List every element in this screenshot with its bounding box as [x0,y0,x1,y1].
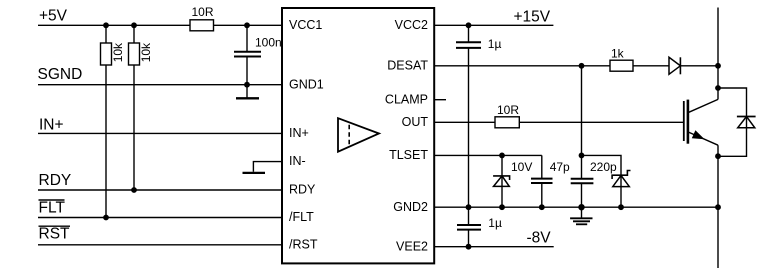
node junction dot FLT [103,215,109,221]
svg-text:IN+: IN+ [39,117,64,134]
svg-text:10V: 10V [511,160,532,174]
node junction dot emitter [715,153,721,159]
wire collector vertical [717,8,719,100]
svg-text:/RST: /RST [289,237,318,251]
svg-text:+15V: +15V [514,9,551,26]
diode D2 freewheel branch wires [718,88,747,156]
wire OUT line left [434,121,495,123]
op-amp U1 buffer triangle [338,118,379,152]
node junction dot VCC1 cap [244,22,250,28]
pin CLAMP stub [434,99,446,101]
node junction dot DESAT [579,63,585,69]
transistor Q1 IGBT gate bar [683,101,685,141]
node junction dot gnd2 c3 [539,204,545,210]
capacitor C1 100n [234,51,261,53]
svg-text:SGND: SGND [38,66,83,83]
svg-text:10k: 10k [111,42,125,62]
wire VEE2 rail [434,246,554,248]
svg-text:CLAMP: CLAMP [385,92,428,106]
wire IN- stub [253,162,282,172]
wire R1 top [105,25,107,43]
transistor Q1 collector diagonal [688,99,718,112]
node junction dot 220p [579,153,585,159]
wire emitter vertical [717,145,719,268]
svg-text:VCC1: VCC1 [289,18,322,32]
wire VCC2 rail [434,24,553,26]
wire to zener Z2 [582,155,622,207]
wire cap C1 bottom [246,57,248,85]
svg-text:IN+: IN+ [289,126,309,140]
resistor R2 10k [129,43,140,65]
resistor R4 1k [610,60,633,71]
capacitor C4 220p top wire [581,155,583,178]
wire C5 top [468,207,470,225]
capacitor C4 220p [571,178,594,180]
wire RST rail [38,244,282,246]
wire FLT overline [39,199,65,201]
wire TLSET line [434,154,542,156]
svg-text:OUT: OUT [402,115,429,129]
node junction dot gnd2 c4 ground [578,204,584,210]
wire R1 bottom to FLT [105,65,107,218]
zener Z1 10V through wire [501,155,503,207]
svg-text:/FLT: /FLT [289,210,314,224]
node junction dot RDY [131,187,137,193]
svg-text:FLT: FLT [39,200,66,217]
transistor Q1 emitter diagonal [688,132,718,145]
svg-text:10R: 10R [497,103,519,117]
capacitor C4 bottom wire [581,184,583,208]
resistor R 10R [190,20,214,31]
wire SGND rail [38,84,282,86]
wire C2 bottom down to GND2 [468,48,470,207]
ground IN- low bar [243,172,266,174]
wire DESAT line [434,65,610,67]
wire C2 top [468,25,470,41]
svg-text:10R: 10R [192,5,214,19]
wire DESAT divider vertical [581,66,583,156]
node junction dot collector top [715,85,721,91]
resistor R1 10k [101,43,112,65]
resistor R5 10R gate [495,117,519,128]
transistor Q1 emitter arrow [692,130,705,139]
node junction dot gnd2 emitter [715,204,721,210]
svg-text:IN-: IN- [289,154,306,168]
svg-text:+5V: +5V [39,8,68,25]
wire GND2 line [434,206,718,208]
svg-text:220p: 220p [590,160,617,174]
diode D1 desat [669,57,680,74]
node junction dot VCC2 [466,22,472,28]
svg-text:TLSET: TLSET [389,148,428,162]
wire C5 bottom [468,230,470,247]
svg-text:GND2: GND2 [393,200,428,214]
capacitor C5 1u vee [457,224,481,226]
ground symbol GND2 [581,207,583,218]
svg-text:47p: 47p [550,160,570,174]
wire FLT rail [38,217,282,219]
svg-text:100n: 100n [255,35,282,49]
svg-text:GND1: GND1 [289,77,324,91]
svg-text:DESAT: DESAT [387,58,428,72]
wire RDY rail [38,189,282,191]
wire RST overline [39,225,71,227]
wire IN+ rail [38,132,282,134]
wire OUT line right to gate [519,121,684,123]
wire 1k to diode [633,65,669,67]
wire cap C1 top [246,25,248,51]
transistor Q1 IGBT channel bar [687,100,690,144]
wire 10R to VCC1 [214,24,283,26]
svg-text:RDY: RDY [289,183,316,197]
svg-text:-8V: -8V [527,229,552,246]
node junction dot B [131,22,137,28]
node junction dot SGND cap [244,82,250,88]
svg-text:VCC2: VCC2 [395,18,428,32]
op-amp U1 gate driver IC body [282,8,434,263]
svg-text:RST: RST [39,226,71,243]
node junction dot gnd2 z1 [499,204,505,210]
diode D2 freewheel [737,116,756,118]
svg-text:1µ: 1µ [488,37,502,51]
capacitor C3 47p top wire [541,155,543,178]
node junction dot A [103,22,109,28]
svg-text:1k: 1k [611,46,625,60]
capacitor C2 1u [456,41,481,43]
svg-text:1µ: 1µ [488,216,502,230]
node junction dot vee2 [466,244,472,250]
node junction dot collector desat [715,63,721,69]
svg-text:10k: 10k [139,42,153,62]
node junction dot TLSET zener [499,153,505,159]
node junction dot gnd2 z2 [618,204,624,210]
capacitor C3 47p [531,178,553,180]
zener Z2 [612,171,630,180]
wire gnd1 stub [246,85,248,98]
wire R2 top [133,25,135,43]
svg-text:RDY: RDY [39,172,72,189]
op-amp U1 dashed line [348,125,350,146]
capacitor C3 bottom wire [541,183,543,207]
node junction dot gnd2 c2 [466,204,472,210]
zener Z1 10V [493,176,510,180]
ground GND1 bar [236,97,259,99]
wire +5V rail [38,24,190,26]
wire R2 bottom to RDY [133,65,135,190]
wire diode to collector [680,65,718,67]
svg-text:VEE2: VEE2 [396,239,428,253]
